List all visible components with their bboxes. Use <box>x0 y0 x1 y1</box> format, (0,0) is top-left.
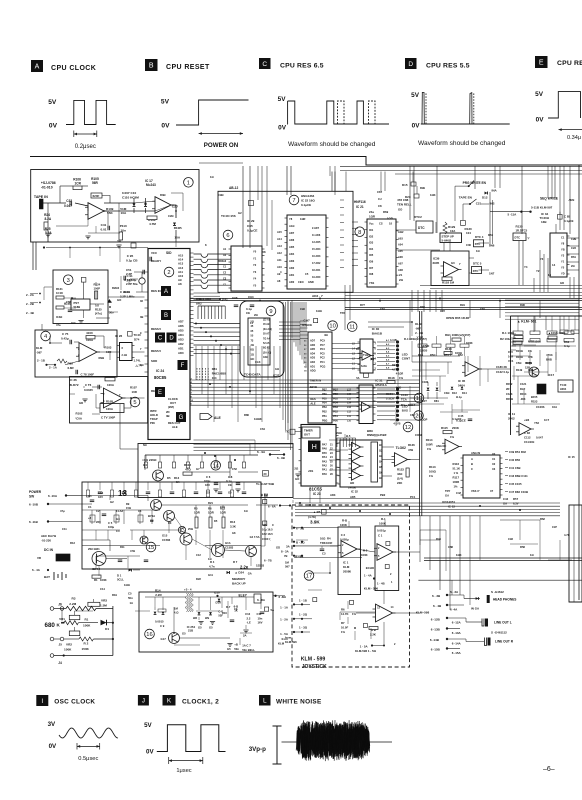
svg-text:GO: GO <box>117 298 122 302</box>
svg-text:2 - 4B: 2 - 4B <box>26 311 34 315</box>
box13 component drops row <box>86 482 246 497</box>
label IC17 <box>145 179 156 187</box>
svg-text:C 1: C 1 <box>378 534 383 538</box>
tape box wires <box>43 186 176 242</box>
svg-text:IC 23: IC 23 <box>313 492 321 496</box>
ic21 labels <box>369 222 404 286</box>
svg-text:RES: RES <box>310 397 316 401</box>
svg-text:PC1: PC1 <box>320 361 325 364</box>
svg-text:4-6B: 4-6B <box>396 387 402 390</box>
svg-text:IO6: IO6 <box>369 260 374 264</box>
ground G5 16 <box>227 644 233 652</box>
label IC36 8LD72 <box>70 378 79 387</box>
svg-text:1Ω: 1Ω <box>208 557 212 561</box>
svg-text:L12: L12 <box>347 412 352 414</box>
ic IC10 PST <box>64 299 90 310</box>
op-amp IC14 2902b <box>442 439 462 454</box>
svg-text:X7: X7 <box>490 489 494 493</box>
label 14 bottom right of seq <box>552 263 556 267</box>
svg-text:C93: C93 <box>300 307 305 311</box>
svg-text:C: C <box>471 467 473 471</box>
svg-text:1.74L: 1.74L <box>134 359 141 363</box>
svg-text:(2M): (2M) <box>168 405 174 409</box>
svg-text:°C0A: °C0A <box>75 416 83 420</box>
pot VR1 100K <box>59 615 98 627</box>
svg-text:2.2R: 2.2R <box>155 593 162 597</box>
wires top mid verticals <box>258 166 272 250</box>
svg-text:R2Ω2: R2Ω2 <box>112 286 120 290</box>
svg-text:R61: R61 <box>571 255 576 259</box>
svg-text:RNM(Q)L25BF: RNM(Q)L25BF <box>367 433 387 437</box>
svg-text:0.43μ: 0.43μ <box>61 337 69 341</box>
connector 2-1A <box>49 366 58 370</box>
transistor Q10 <box>164 511 175 522</box>
ic IC23 upper half <box>304 332 332 423</box>
svg-text:1 - 5A: 1 - 5A <box>360 645 369 649</box>
wire top rail 14 <box>145 455 258 478</box>
svg-text:R140: R140 <box>445 347 452 351</box>
svg-text:B74A: B74A <box>148 514 155 518</box>
svg-text:AD6: AD6 <box>310 344 316 347</box>
label x55 GD <box>294 467 300 482</box>
svg-text:4-11B: 4-11B <box>390 339 397 342</box>
resistor R115 200K <box>441 426 460 439</box>
svg-text:C123: C123 <box>506 392 513 396</box>
svg-text:AD1: AD1 <box>289 273 295 277</box>
svg-text:GO: GO <box>398 208 403 212</box>
svg-text:6 - 3B: 6 - 3B <box>432 594 441 598</box>
svg-text:47a: 47a <box>56 323 61 327</box>
svg-text:5: 5 <box>133 400 136 406</box>
svg-text:R102: R102 <box>76 412 83 416</box>
klm601 wires <box>511 316 560 380</box>
svg-text:PBΩ: PBΩ <box>322 419 327 422</box>
svg-text:100K: 100K <box>361 553 368 557</box>
svg-text:B6B: B6B <box>546 358 552 362</box>
svg-text:R126: R126 <box>408 443 415 447</box>
label CPU RESET <box>166 64 210 71</box>
svg-text:A: A <box>471 457 473 461</box>
svg-text:A14: A14 <box>277 237 282 241</box>
svg-text:1CR: 1CR <box>75 182 82 186</box>
svg-text:8Ω: 8Ω <box>251 349 254 352</box>
svg-text:B - 2Ω: B - 2Ω <box>296 541 305 545</box>
svg-text:IO8: IO8 <box>369 272 374 276</box>
svg-text:R152: R152 <box>506 382 513 386</box>
op-amps in IC32 <box>349 442 364 480</box>
svg-text:R51: R51 <box>444 353 449 357</box>
svg-text:6: 6 <box>226 233 229 239</box>
svg-text:6 - 4B: 6 - 4B <box>433 604 442 608</box>
ic13 right component rows <box>505 450 575 494</box>
svg-text:8Ω A3: 8Ω A3 <box>263 347 271 350</box>
ic IC22 ROM <box>285 215 329 289</box>
svg-text:C21: C21 <box>476 202 482 206</box>
svg-text:5-11B KLM-597: 5-11B KLM-597 <box>531 206 553 210</box>
svg-text:25Ω: 25Ω <box>188 527 193 531</box>
svg-text:1%: 1% <box>399 376 404 380</box>
svg-text:M5451A: M5451A <box>375 383 387 387</box>
svg-text:H: H <box>312 444 317 451</box>
svg-text:R1: R1 <box>94 578 98 582</box>
svg-text:DB1T: DB1T <box>408 403 416 407</box>
node 12 circle <box>403 422 413 432</box>
svg-text:1R.DTC5: 1R.DTC5 <box>516 229 528 233</box>
svg-text:PA1: PA1 <box>322 468 327 472</box>
svg-text:5Ω: 5Ω <box>251 321 254 324</box>
svg-text:PB6: PB6 <box>322 393 327 396</box>
transistor DTC3 <box>513 233 531 241</box>
svg-text:IC 22 19Ω: IC 22 19Ω <box>301 199 315 203</box>
svg-text:C52: C52 <box>232 467 237 471</box>
klm601 resistor rows <box>513 316 574 342</box>
svg-text:14: 14 <box>548 273 551 277</box>
label D.1u CE top <box>452 417 462 421</box>
transistor DTC5 <box>472 262 495 276</box>
board KLM-601 outline <box>511 316 582 435</box>
svg-text:AD3: AD3 <box>289 259 295 263</box>
capacitor C75 <box>61 332 72 344</box>
resistor network box16 <box>185 593 193 612</box>
svg-text:K: K <box>167 698 172 705</box>
svg-text:0V: 0V <box>49 123 58 130</box>
svg-text:C2: C2 <box>96 509 100 513</box>
label CPU RES 6.5 <box>280 63 324 70</box>
svg-text:KLM - 599: KLM - 599 <box>301 657 326 663</box>
svg-text:C182: C182 <box>422 380 429 384</box>
resistor R125 22K <box>397 468 409 486</box>
wire left edge verticals <box>33 242 36 270</box>
waveform A period arrow 0.2usec <box>74 131 97 151</box>
svg-text:2R: 2R <box>506 387 509 391</box>
svg-text:IC 36: IC 36 <box>70 378 78 382</box>
label J4 <box>50 654 65 665</box>
svg-text:200K: 200K <box>452 426 460 430</box>
waveform I sine trace <box>59 728 118 738</box>
svg-text:C88: C88 <box>448 545 453 549</box>
svg-text:19 AD0: 19 AD0 <box>312 276 321 279</box>
svg-text:G11: G11 <box>208 573 213 577</box>
svg-text:A13: A13 <box>277 244 282 248</box>
svg-text:478 C88: 478 C88 <box>397 198 409 202</box>
right column component labels <box>561 236 576 276</box>
svg-text:2.2M: 2.2M <box>69 602 76 606</box>
svg-text:C121: C121 <box>520 382 527 386</box>
ic22 internal labels <box>289 217 321 284</box>
label BR9 RAM <box>367 429 387 437</box>
label 81C55 <box>309 487 322 497</box>
capacitor C8 0.1u <box>226 475 240 487</box>
svg-text:L: L <box>263 698 267 705</box>
transistor Q8 <box>528 361 539 377</box>
svg-text:G4: G4 <box>116 517 120 521</box>
svg-text:6 -15A: 6 -15A <box>452 651 462 655</box>
svg-text:0.5μCE: 0.5μCE <box>302 323 312 327</box>
svg-text:0.047: 0.047 <box>536 436 543 440</box>
ic22 left pin labels <box>277 230 282 283</box>
transistor Q4 S5553 <box>246 535 265 568</box>
svg-text:680: 680 <box>45 622 56 629</box>
label CPU CLOCK <box>51 65 96 72</box>
svg-text:1ΩR: 1ΩR <box>369 215 376 219</box>
svg-text:JOYSTICK: JOYSTICK <box>302 664 327 670</box>
ic IC26 <box>117 343 135 361</box>
wire cpu bottom to bus <box>194 440 256 455</box>
svg-text:R69: R69 <box>383 210 389 214</box>
svg-text:R118: R118 <box>388 376 395 380</box>
svg-text:B: B <box>164 313 168 319</box>
svg-text:IC 32: IC 32 <box>351 490 358 494</box>
node 11 circle <box>347 322 357 332</box>
svg-text:CEO: CEO <box>298 280 304 284</box>
label 6-8B ext <box>273 595 286 599</box>
ground G5 a <box>206 489 219 495</box>
svg-text:POWER ON: POWER ON <box>204 142 239 149</box>
svg-text:TAPE EN: TAPE EN <box>459 196 473 200</box>
svg-text:Y0: Y0 <box>253 250 257 254</box>
svg-text:AD5: AD5 <box>310 348 316 351</box>
capacitor C52 <box>124 278 138 286</box>
label G6 C100 <box>262 505 280 550</box>
label +5-4 <box>184 588 192 592</box>
svg-text:A03: A03 <box>398 236 403 240</box>
capacitor C95 cpu <box>126 254 152 263</box>
svg-text:C47 D82 C10B: C47 D82 C10B <box>509 490 528 494</box>
svg-text:D13: D13 <box>452 391 457 395</box>
svg-text:19: 19 <box>416 396 422 402</box>
svg-text:10.0F: 10.0F <box>341 626 348 630</box>
resistor R154 mid <box>386 392 408 402</box>
svg-text:C1: C1 <box>561 236 565 240</box>
svg-text:16V: 16V <box>258 621 263 625</box>
svg-text:–6–: –6– <box>543 766 555 773</box>
svg-text:L4: L4 <box>352 348 355 351</box>
svg-text:3: 3 <box>375 363 377 366</box>
diode pair 16 <box>154 607 165 614</box>
analog section resistors row <box>418 336 469 356</box>
svg-text:HNF116: HNF116 <box>354 200 366 204</box>
svg-text:104: 104 <box>466 231 471 235</box>
svg-text:C64: C64 <box>260 427 265 431</box>
svg-text:D11: D11 <box>356 347 361 351</box>
svg-text:100μ: 100μ <box>108 525 114 529</box>
svg-text:G15: G15 <box>162 534 168 538</box>
led column CONT <box>377 339 410 376</box>
svg-text:GO: GO <box>295 477 300 481</box>
capacitor C2 js <box>340 533 349 542</box>
svg-text:D: D <box>169 336 174 342</box>
svg-text:4100: 4100 <box>86 331 93 335</box>
svg-text:AD7: AD7 <box>289 231 295 235</box>
svg-text:R154: R154 <box>520 392 527 396</box>
label TC40H156 IC29 <box>221 214 258 233</box>
waveform label J <box>138 695 149 706</box>
svg-text:21: 21 <box>330 444 333 447</box>
resistor R14 2.2K <box>155 589 162 598</box>
svg-text:C5Ω: C5Ω <box>516 361 521 365</box>
svg-text:6.8R: 6.8R <box>68 366 75 370</box>
pot VR3 1.5M <box>88 599 113 609</box>
svg-text:0.1μCE: 0.1μCE <box>247 229 258 233</box>
resistor R100K mid <box>466 341 473 345</box>
svg-text:-003: -003 <box>520 397 526 401</box>
svg-text:1%: 1% <box>427 447 432 451</box>
svg-text:2: 2 <box>378 547 380 550</box>
svg-text:VR2: VR2 <box>66 643 72 647</box>
wire 6-4B 6-4A <box>433 604 480 612</box>
label To KLM-59B <box>256 482 275 486</box>
right vertical bundle top <box>330 166 564 230</box>
svg-text:ΩR: ΩR <box>193 616 197 620</box>
marker box a2 <box>461 221 466 226</box>
svg-text:7B: 7B <box>284 554 287 558</box>
center vertical wire bundle <box>283 302 291 450</box>
svg-text:597: 597 <box>285 565 290 569</box>
svg-text:Y3: Y3 <box>561 254 565 258</box>
svg-text:Y3: Y3 <box>253 270 257 274</box>
box13 inner cluster 2 <box>82 510 160 568</box>
joystick stage box B <box>375 526 399 591</box>
svg-text:VR3: VR3 <box>101 599 107 603</box>
data bus to output section <box>295 503 560 516</box>
svg-text:2: 2 <box>375 368 377 371</box>
svg-text:6 -4A: 6 -4A <box>450 608 458 612</box>
connector 6-11B <box>29 520 82 524</box>
svg-text:R96: R96 <box>520 303 525 307</box>
svg-text:C: C <box>158 336 163 342</box>
svg-text:GO: GO <box>71 321 76 325</box>
capacitor C45 <box>456 414 472 423</box>
resistor R113 100K <box>429 465 437 478</box>
svg-text:5-646Ω: 5-646Ω <box>442 238 452 242</box>
svg-text:COM: COM <box>415 433 422 437</box>
svg-text:J4: J4 <box>58 661 62 665</box>
bus top line y498 <box>293 498 420 500</box>
label vSS <box>308 469 313 473</box>
svg-text:2.1Ω: 2.1Ω <box>122 354 127 357</box>
label OSC CLOCK <box>54 699 95 706</box>
diode D24 memory <box>227 571 252 576</box>
svg-text:C 9: C 9 <box>160 624 165 628</box>
svg-text:GA: GA <box>445 494 449 498</box>
svg-text:C1583: C1583 <box>225 546 234 550</box>
resistor R4 4.7K <box>209 560 215 569</box>
svg-text:B155: B155 <box>531 395 538 399</box>
resistor R1 100K 601 <box>502 331 523 339</box>
marker 17 box <box>356 373 368 380</box>
svg-text:C8: C8 <box>378 204 382 208</box>
capacitor C97 <box>302 319 318 328</box>
svg-text:C T6: C T6 <box>85 383 92 387</box>
svg-text:4-6: 4-6 <box>386 359 390 362</box>
svg-text:D: D <box>408 61 413 68</box>
svg-text:C45 C105: C45 C105 <box>509 482 522 486</box>
svg-text:6 -12B: 6 -12B <box>431 618 441 622</box>
svg-text:8LD72: 8LD72 <box>70 383 79 387</box>
waveform E measure arrow 0.34usec <box>559 128 582 141</box>
resistor R6 2.2K <box>369 627 378 637</box>
svg-text:IC 1: IC 1 <box>343 561 349 565</box>
svg-text:RES6.5: RES6.5 <box>151 327 161 331</box>
svg-text:TIMER IN: TIMER IN <box>310 379 322 383</box>
svg-text:CS: CS <box>379 222 383 226</box>
svg-text:READY: READY <box>151 259 161 263</box>
svg-text:TRY: TRY <box>445 489 450 493</box>
resistor R2 150K <box>79 637 113 651</box>
svg-text:2: 2 <box>78 347 80 351</box>
svg-text:G1h: G1h <box>225 541 231 545</box>
resistor comb above ic32 <box>336 431 356 447</box>
headphones output <box>432 590 516 603</box>
svg-text:0V: 0V <box>412 123 421 130</box>
led column BUS <box>377 387 408 426</box>
label PRG WRITE EN <box>463 181 487 185</box>
svg-text:2SC1931: 2SC1931 <box>88 547 100 551</box>
svg-text:5: 5 <box>378 555 380 558</box>
section4 wires <box>42 324 145 365</box>
svg-text:E: E <box>158 390 162 396</box>
svg-text:DTC: DTC <box>475 242 481 246</box>
svg-text:R44: R44 <box>436 537 441 541</box>
label +5V mid <box>261 493 269 497</box>
bus lines below cpu <box>190 378 420 405</box>
svg-text:0V: 0V <box>536 117 545 124</box>
svg-text:100K: 100K <box>340 523 348 527</box>
op-amp IC11 2902 <box>508 412 534 435</box>
label CPU RES (clipped) <box>557 60 582 67</box>
svg-text:2 - 1A: 2 - 1A <box>49 366 58 370</box>
svg-text:6.3V: 6.3V <box>513 502 519 506</box>
svg-text:IC 11: IC 11 <box>508 412 515 416</box>
svg-text:5: 5 <box>342 552 344 555</box>
svg-text:R10B: R10B <box>106 400 113 404</box>
svg-text:A08: A08 <box>398 268 403 272</box>
resistor R5 100K js <box>340 519 348 527</box>
label ELEY <box>239 594 248 598</box>
wires cpu left to box13 <box>120 404 265 546</box>
svg-text:TC40=156: TC40=156 <box>221 214 236 218</box>
capacitor C27 D15 group <box>332 172 419 221</box>
tape box extra wires <box>45 193 183 247</box>
svg-text:S -G4612: S -G4612 <box>491 590 504 594</box>
right edge module <box>569 505 582 602</box>
svg-text:AD7: AD7 <box>310 340 316 343</box>
wires under tape box <box>69 247 101 258</box>
ic30 left pin labels <box>352 343 377 371</box>
svg-text:104: 104 <box>212 376 217 380</box>
svg-text:5: 5 <box>103 399 105 403</box>
svg-text:M=243: M=243 <box>146 183 156 187</box>
svg-text:R5Ω: R5Ω <box>430 353 435 357</box>
svg-text:R57: R57 <box>513 497 519 501</box>
ic23 right pin labels <box>322 443 333 476</box>
svg-text:GA: GA <box>248 572 252 576</box>
svg-text:D14: D14 <box>462 391 467 395</box>
svg-text:0V: 0V <box>278 125 287 132</box>
svg-text:C36: C36 <box>466 243 471 247</box>
label KLM-596 <box>364 587 379 591</box>
svg-text:3A: 3A <box>286 545 291 549</box>
svg-text:C4: C4 <box>116 529 120 533</box>
label 21 pin <box>399 273 404 282</box>
svg-text:▲ KLM- 601: ▲ KLM- 601 <box>517 320 536 324</box>
svg-text:28: 28 <box>330 473 333 476</box>
svg-text:R62: R62 <box>540 517 545 521</box>
resistor R107b <box>130 386 138 395</box>
svg-text:Y5: Y5 <box>561 266 565 270</box>
svg-text:vSS: vSS <box>308 469 313 473</box>
svg-text:7: 7 <box>375 343 377 346</box>
